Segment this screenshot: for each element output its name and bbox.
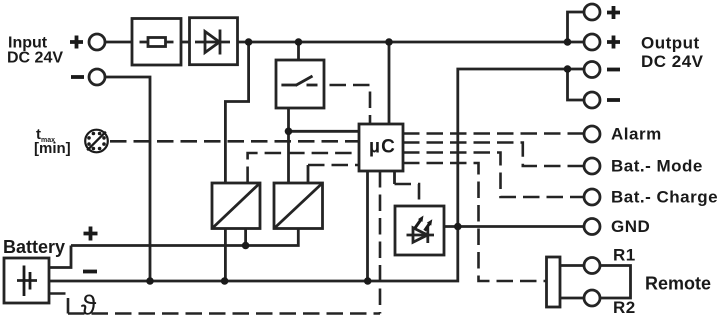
terminal R1 (584, 258, 600, 274)
wire GND line (444, 225, 584, 228)
LED indicator box (395, 206, 444, 255)
svg-text:ϑ: ϑ (81, 290, 97, 321)
minus sign output 2 (607, 98, 620, 102)
plus sign battery (84, 227, 98, 241)
junction node top rail at switch (295, 38, 303, 46)
svg-text:Bat.- Mode: Bat.- Mode (611, 157, 703, 176)
junction node uC left (285, 128, 293, 136)
wire converter 1 right pin to plus battery rail (244, 229, 247, 246)
dashed wire uC pin to Bat Mode (403, 143, 584, 167)
wire remote R2 left (560, 297, 584, 300)
fuse F1 box (132, 19, 181, 66)
dashed wire converter 2 to uC (308, 164, 359, 167)
junction node plus rail (242, 242, 250, 250)
wire remote R1-R2 right loop (600, 266, 631, 299)
wire uC bottom stub to LED (393, 171, 396, 184)
dashed wire switch to uC top (306, 85, 370, 124)
converter 1 box (212, 183, 260, 229)
switch S1 box (276, 60, 324, 108)
plus sign input (70, 36, 83, 49)
junction node minus rail input (146, 277, 154, 285)
junction node output minus (564, 65, 572, 73)
junction node minus rail converter (221, 277, 229, 285)
svg-text:Alarm: Alarm (611, 125, 662, 144)
wire input plus to fuse (105, 41, 132, 44)
junction node top rail at output (564, 38, 572, 46)
microcontroller uC box (359, 124, 403, 171)
dashed wire t-max pot to uC (110, 140, 359, 143)
svg-text:Output: Output (641, 34, 700, 53)
terminal Bat Mode (584, 158, 600, 174)
svg-text:Bat.- Charge: Bat.- Charge (611, 188, 718, 207)
minus sign output 1 (607, 68, 620, 72)
plus sign output 1 (607, 6, 620, 19)
junction node top rail at uC (385, 38, 393, 46)
wire top rail to uC top pin (388, 42, 391, 124)
terminal input plus (89, 34, 105, 50)
svg-text:DC 24V: DC 24V (7, 50, 63, 67)
wire output plus terminal 1 branch (568, 12, 585, 42)
dashed wire temp sensor line (68, 312, 380, 315)
terminal GND (584, 219, 600, 235)
diode D1 box (190, 18, 238, 65)
wire uC bottom pin to minus rail (366, 171, 369, 281)
junction node minus rail uC (364, 277, 372, 285)
dashed wire uC pin to Bat Charge (403, 153, 584, 198)
wire battery plus rail to converter 2 (71, 229, 298, 246)
dashed wire converter 1 to uC (248, 153, 359, 183)
minus sign input (71, 75, 84, 79)
terminal input minus (89, 69, 105, 85)
wire top rail jog down to converter 1 (225, 42, 248, 183)
dashed wire battery temp tap (49, 294, 68, 314)
terminal output minus 1 (584, 62, 600, 78)
wire output minus terminal 2 branch (568, 69, 585, 100)
wire converter 1 left pin to minus rail (224, 229, 227, 282)
terminal output plus 1 (584, 4, 600, 20)
battery box (4, 258, 49, 303)
terminal output plus 2 (584, 34, 600, 50)
wire remote R1 left (560, 264, 584, 267)
wire fuse to diode (181, 41, 190, 44)
wire input minus down to minus rail (105, 77, 150, 281)
svg-text:GND: GND (611, 217, 650, 236)
terminal Alarm (584, 126, 600, 142)
wire top rail to switch (297, 42, 300, 60)
svg-text:Remote: Remote (645, 274, 711, 294)
junction node GND (454, 223, 462, 231)
svg-text:R2: R2 (613, 298, 636, 317)
dashed wire uC pin to Remote (403, 163, 547, 281)
minus sign battery (83, 270, 97, 274)
terminal Bat Charge (584, 189, 600, 205)
svg-text:R1: R1 (613, 246, 636, 265)
wire battery plus terminal (49, 246, 71, 268)
svg-text:DC 24V: DC 24V (641, 52, 704, 71)
dashed wire uC pin to Alarm (403, 132, 584, 135)
terminal output minus 2 (584, 92, 600, 108)
dashed wire uC stub to LED box (395, 184, 420, 206)
wire output minus rail to battery minus rail (49, 69, 584, 281)
plus sign output 2 (607, 36, 620, 49)
dashed wire uC bottom to temp sensor line (379, 171, 382, 314)
wire node to uC left pin 1 (289, 130, 360, 133)
wire switch to converter 2 (287, 108, 290, 183)
potentiometer t-max (85, 130, 108, 153)
junction node top rail at converter drop (245, 38, 253, 46)
svg-text:[min]: [min] (34, 140, 71, 157)
wire main +24V top rail (238, 41, 585, 44)
wire converter 2 stub up (307, 165, 310, 183)
converter 2 box (274, 183, 323, 229)
remote connector block (547, 257, 561, 307)
svg-text:Battery: Battery (3, 237, 65, 257)
terminal R2 (584, 290, 600, 306)
svg-text:µC: µC (369, 137, 396, 158)
